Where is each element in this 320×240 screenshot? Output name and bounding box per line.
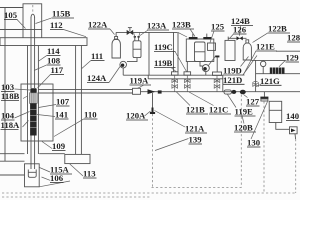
label 125 [210, 22, 225, 43]
fitting 119D [213, 72, 222, 75]
label 121C [189, 92, 231, 115]
svg-text:124A: 124A [87, 73, 107, 83]
label 129 [279, 53, 299, 67]
cap bolts right [203, 34, 211, 40]
label 121A [155, 111, 208, 134]
svg-text:115B: 115B [52, 9, 71, 19]
label 122B [253, 24, 291, 43]
manifold pipe [123, 75, 223, 92]
label 110 [54, 110, 98, 137]
label 118B [1, 91, 28, 101]
stem 123A to regulator [127, 58, 137, 62]
regulator circle 124A [120, 61, 127, 75]
svg-text:109: 109 [52, 141, 66, 151]
black round fitting [232, 90, 237, 94]
svg-text:121G: 121G [260, 76, 280, 86]
inner vessel [195, 42, 206, 62]
label 115A [40, 165, 73, 175]
label 120B [234, 113, 256, 133]
diag from quench box [39, 181, 70, 187]
svg-text:140: 140 [286, 111, 300, 121]
cup 115A [28, 170, 36, 178]
regulator circle B [202, 65, 209, 76]
sample rod 141 black [30, 104, 36, 136]
pump 129 hatched [256, 68, 300, 74]
label 124A [87, 67, 120, 84]
label 112 [50, 20, 86, 37]
stem to flange [263, 92, 265, 97]
left wall [4, 8, 6, 162]
label 104 [1, 111, 30, 121]
svg-text:106: 106 [50, 173, 64, 183]
label 107 [39, 97, 70, 108]
svg-text:122B: 122B [268, 24, 287, 34]
label 123A [140, 21, 169, 36]
label 117 [38, 65, 65, 88]
drop to manifold [148, 32, 150, 75]
fitting 119C [184, 72, 191, 75]
lower bench lines [0, 154, 65, 175]
line y60 [252, 59, 286, 61]
junction block [158, 90, 162, 93]
svg-text:112: 112 [50, 20, 63, 30]
label 119B [154, 58, 176, 72]
label 119E [228, 95, 256, 117]
label 118A [1, 120, 29, 130]
svg-text:119A: 119A [130, 76, 150, 86]
wire top-left lower [0, 29, 23, 31]
svg-text:105: 105 [4, 10, 18, 20]
furnace outlet pipe double [38, 89, 132, 93]
svg-text:113: 113 [83, 169, 96, 179]
svg-text:108: 108 [47, 56, 61, 66]
svg-text:121D: 121D [223, 75, 242, 85]
svg-text:119B: 119B [154, 58, 173, 68]
diag to cap [178, 32, 187, 37]
svg-text:121E: 121E [256, 42, 275, 52]
label 127 [244, 95, 260, 107]
hopper 105 box [23, 4, 42, 38]
label 139 [155, 135, 202, 151]
fitting 119B [172, 72, 179, 75]
valve stack 121C [185, 75, 191, 92]
label 121D [223, 56, 257, 85]
main line [141, 91, 301, 93]
label 121B [176, 92, 208, 115]
svg-text:120A: 120A [126, 111, 146, 121]
label 119C [154, 42, 187, 72]
line 128 [276, 50, 300, 52]
valve on feed pipe [127, 28, 133, 35]
svg-text:128: 128 [287, 33, 300, 43]
capsule fitting on main line [224, 90, 232, 94]
label 120A [126, 111, 151, 121]
V connectors 123A [134, 32, 135, 37]
svg-text:120B: 120B [234, 123, 253, 133]
svg-text:127: 127 [246, 97, 260, 107]
svg-text:119E: 119E [235, 107, 254, 117]
crucible hatched collar [29, 93, 37, 104]
label 121E [244, 42, 278, 75]
svg-text:121B: 121B [186, 105, 205, 115]
gas cylinder 122A [112, 32, 120, 58]
open circle valve [261, 60, 266, 73]
quench vessel 106 [25, 164, 40, 187]
flange dark [260, 97, 268, 101]
label 123B [172, 20, 195, 37]
svg-text:123A: 123A [147, 21, 167, 31]
furnace column outer [28, 46, 39, 155]
svg-text:117: 117 [51, 65, 64, 75]
label 141 [37, 110, 69, 120]
bench table 112 [0, 38, 87, 46]
black valve 124B [237, 36, 243, 40]
svg-text:118B: 118B [1, 91, 20, 101]
drop with bowtie valve [253, 60, 259, 91]
svg-text:107: 107 [56, 97, 70, 107]
drain tee 120A [150, 93, 155, 114]
label 113 [70, 164, 97, 179]
label 130 [247, 102, 268, 148]
small box 125 [208, 43, 216, 50]
svg-text:111: 111 [91, 51, 103, 61]
flow arrow [148, 89, 156, 94]
label 126 [230, 25, 247, 39]
centerline dashed [32, 5, 34, 13]
label 114 [39, 46, 61, 61]
chamber 110 [21, 84, 53, 141]
label 124B [231, 16, 253, 36]
pump box 140 [290, 127, 298, 139]
label 109 [42, 141, 66, 151]
stem to regulator B [200, 62, 203, 67]
drop to fitting1 second line [177, 32, 179, 71]
dashed bottoms [152, 187, 242, 189]
outlet to pump 140 [276, 123, 290, 130]
svg-text:114: 114 [47, 46, 60, 56]
label 106 [42, 173, 64, 183]
vessel 126 [225, 37, 235, 61]
label 140 [286, 111, 300, 121]
svg-text:129: 129 [286, 53, 300, 63]
valve stack 121B [172, 75, 178, 92]
svg-text:104: 104 [1, 111, 15, 121]
sample holder top dot 103 [30, 88, 36, 92]
fitting 119A [133, 88, 141, 94]
svg-text:122A: 122A [88, 20, 108, 30]
label 103 [1, 82, 30, 92]
label 108 [34, 56, 61, 71]
bench foot 113 [65, 154, 90, 163]
pipe from box 125 down [215, 56, 219, 73]
label 105 [4, 10, 26, 29]
svg-text:119C: 119C [154, 42, 173, 52]
svg-text:121C: 121C [209, 105, 228, 115]
svg-text:110: 110 [84, 110, 97, 120]
svg-text:126: 126 [233, 25, 247, 35]
label 121G [256, 76, 282, 87]
dark ellipse fitting [240, 90, 246, 95]
dashed drops [152, 114, 154, 188]
pipe 126 to 122B [228, 37, 246, 39]
label 115B [36, 9, 75, 24]
svg-text:123B: 123B [172, 20, 191, 30]
leader to circle B [208, 56, 216, 67]
scrubber vessel 123A [133, 36, 141, 58]
wire top-left upper [0, 7, 23, 9]
svg-text:139: 139 [189, 135, 203, 145]
valve stack right [214, 75, 220, 91]
label 111 [82, 51, 105, 69]
bench right leg [76, 46, 82, 155]
cap bolts left [189, 34, 198, 40]
vessel 127 [269, 101, 282, 122]
drop to fitting1 [173, 32, 175, 71]
sample tube 115B [31, 14, 35, 169]
gas cylinder 122B [243, 40, 251, 60]
container 123B [186, 39, 214, 62]
drop container to fitting2 [186, 62, 188, 72]
svg-text:121A: 121A [185, 124, 205, 134]
feed pipe [116, 31, 177, 33]
svg-text:125: 125 [211, 22, 225, 32]
label 128 [287, 33, 301, 43]
label 122A [88, 20, 115, 35]
svg-text:118A: 118A [1, 120, 21, 130]
label 119A [130, 76, 152, 89]
svg-text:130: 130 [247, 138, 261, 148]
label 119D [223, 57, 249, 76]
svg-text:141: 141 [55, 110, 68, 120]
